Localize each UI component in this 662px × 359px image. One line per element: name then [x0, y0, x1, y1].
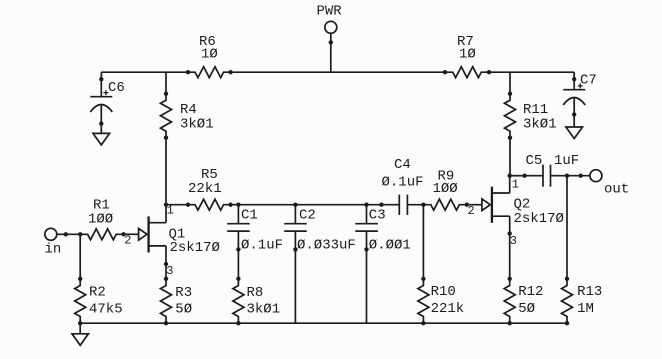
svg-text:1M: 1M	[577, 301, 594, 317]
svg-text:3kØ1: 3kØ1	[247, 301, 281, 317]
resistor R13	[562, 277, 573, 325]
svg-text:C2: C2	[299, 208, 316, 224]
R4 value label	[180, 102, 214, 133]
svg-text:R13: R13	[577, 284, 602, 300]
port in	[45, 228, 68, 257]
capacitor C4	[380, 195, 425, 215]
svg-text:1Ø: 1Ø	[201, 47, 218, 63]
wire	[566, 176, 568, 279]
svg-text:R2: R2	[89, 285, 106, 301]
svg-text:C3: C3	[369, 208, 386, 224]
svg-text:2: 2	[468, 204, 475, 218]
R5 value label	[188, 167, 222, 197]
svg-text:C7: C7	[580, 73, 597, 89]
resistor R7	[443, 67, 490, 78]
R3 value label	[175, 285, 192, 318]
R6 value label	[199, 34, 218, 63]
capacitor C5	[523, 165, 569, 187]
svg-text:out: out	[604, 182, 629, 198]
C1 label	[241, 208, 283, 254]
wire	[165, 264, 167, 279]
svg-text:C4: C4	[394, 157, 411, 173]
wire	[231, 204, 382, 206]
wire	[79, 234, 81, 278]
ground	[72, 323, 88, 345]
capacitor C1	[227, 203, 250, 251]
R11 value label	[523, 102, 557, 133]
wire	[294, 249, 296, 323]
wire	[100, 72, 102, 97]
svg-text:C1: C1	[241, 208, 258, 224]
R2 value label	[89, 285, 123, 318]
R1 value label	[88, 198, 113, 228]
wire	[57, 233, 80, 235]
svg-text:Ø.ØØ1: Ø.ØØ1	[369, 238, 411, 254]
svg-text:47k5: 47k5	[89, 301, 123, 317]
R13 value label	[577, 284, 602, 317]
wire	[165, 72, 167, 94]
R10 value label	[431, 284, 465, 317]
svg-text:in: in	[45, 242, 62, 258]
resistor R12	[504, 277, 515, 325]
Q2 label	[514, 197, 564, 227]
wire	[165, 138, 167, 205]
Q1 label	[169, 226, 220, 256]
resistor R4	[161, 92, 172, 139]
transistor Q2	[467, 174, 512, 235]
svg-text:R12: R12	[518, 284, 543, 300]
svg-text:1ØØ: 1ØØ	[433, 181, 458, 197]
resistor R6	[186, 67, 232, 78]
wire	[101, 71, 188, 73]
R8 value label	[247, 285, 281, 318]
svg-text:2: 2	[124, 234, 131, 248]
resistor R2	[75, 277, 86, 325]
resistor R3	[161, 277, 172, 325]
svg-text:PWR: PWR	[317, 4, 343, 20]
wire	[231, 71, 445, 73]
svg-text:5Ø: 5Ø	[518, 301, 535, 317]
C4 label	[382, 157, 424, 191]
wire	[509, 72, 511, 94]
ground	[93, 124, 110, 145]
R12 value label	[518, 284, 543, 317]
svg-text:C5: C5	[526, 153, 543, 169]
wire	[509, 138, 511, 176]
svg-text:3: 3	[166, 264, 173, 278]
resistor R8	[233, 277, 244, 325]
wire	[573, 72, 575, 90]
R7 value label	[457, 34, 476, 63]
resistor R11	[505, 92, 516, 139]
svg-text:1: 1	[167, 204, 174, 218]
svg-text:R10: R10	[431, 284, 456, 300]
port out	[579, 170, 629, 198]
C2 label	[297, 208, 356, 254]
svg-text:3kØ1: 3kØ1	[523, 117, 557, 133]
wire	[509, 234, 511, 279]
svg-text:3: 3	[510, 234, 517, 248]
svg-text:R8: R8	[247, 285, 264, 301]
svg-text:221k: 221k	[431, 301, 465, 317]
C3 label	[369, 208, 411, 254]
resistor R1	[79, 229, 126, 240]
ground	[566, 115, 583, 139]
resistor R9	[423, 199, 468, 210]
svg-text:22k1: 22k1	[188, 181, 222, 197]
svg-text:1ØØ: 1ØØ	[88, 212, 113, 228]
svg-text:Ø.1uF: Ø.1uF	[241, 238, 283, 254]
svg-text:C6: C6	[108, 80, 125, 96]
capacitor C7	[563, 78, 585, 117]
wire	[510, 175, 525, 177]
wire	[80, 322, 567, 324]
resistor R10	[418, 277, 429, 325]
wire	[567, 175, 590, 177]
transistor Q1	[124, 203, 168, 266]
wire	[166, 204, 188, 206]
svg-text:2sk17Ø: 2sk17Ø	[514, 211, 564, 227]
svg-text:2sk17Ø: 2sk17Ø	[170, 240, 220, 256]
wire	[489, 71, 574, 73]
capacitor C3	[355, 203, 378, 251]
svg-text:R3: R3	[175, 285, 192, 301]
svg-text:1Ø: 1Ø	[459, 47, 476, 63]
capacitor C6	[90, 78, 112, 126]
svg-text:Ø.Ø33uF: Ø.Ø33uF	[297, 238, 356, 254]
wire	[422, 205, 424, 279]
svg-text:5Ø: 5Ø	[175, 301, 192, 317]
capacitor C2	[284, 203, 307, 251]
svg-text:1: 1	[512, 177, 519, 191]
R9 value label	[433, 169, 458, 198]
svg-text:Ø.1uF: Ø.1uF	[382, 175, 424, 191]
wire	[366, 249, 368, 323]
power PWR	[317, 4, 343, 73]
svg-text:1uF: 1uF	[554, 153, 579, 169]
svg-text:3kØ1: 3kØ1	[180, 117, 214, 133]
wire	[237, 249, 239, 278]
C5 label	[526, 153, 580, 169]
resistor R5	[186, 199, 232, 210]
